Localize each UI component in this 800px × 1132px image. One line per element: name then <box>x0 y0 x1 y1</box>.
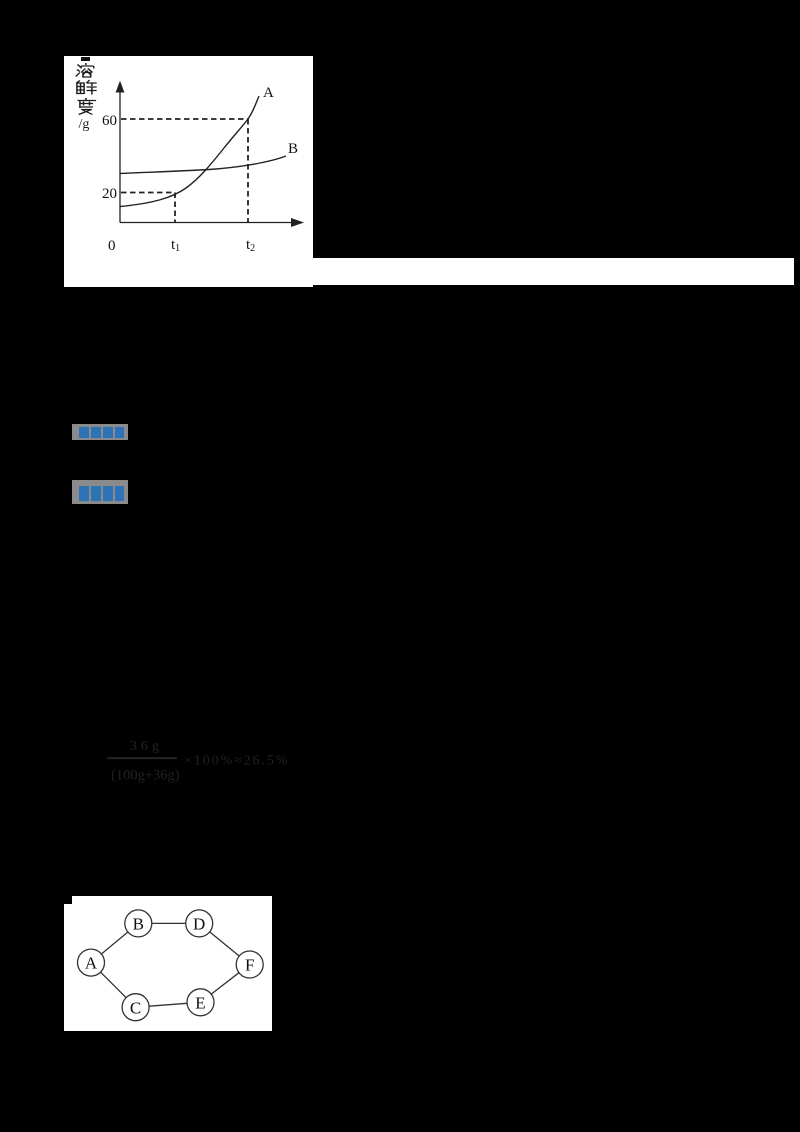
gray tag 2 (analysis tag) <box>72 480 128 504</box>
small black artifact dash on top edge <box>81 57 90 61</box>
svg-text:B: B <box>133 915 144 934</box>
svg-text:D: D <box>193 915 205 934</box>
edge A-B <box>101 932 128 954</box>
edge B-D <box>152 922 186 924</box>
svg-text:C: C <box>130 999 141 1018</box>
graph diagram <box>64 898 272 1029</box>
node D circle <box>186 910 213 937</box>
graph figure white box <box>64 896 272 1031</box>
dashed line x=t1 <box>174 193 176 223</box>
node E circle <box>187 989 214 1016</box>
horizontal scrollbar band right of chart <box>313 258 794 285</box>
edge E-F <box>211 973 239 994</box>
dashed line y=20 <box>121 192 175 194</box>
svg-text:(100g+36g): (100g+36g) <box>111 768 180 784</box>
node A circle <box>78 949 105 976</box>
edge D-F <box>210 932 240 956</box>
svg-text:t2: t2 <box>246 237 255 254</box>
node C circle <box>122 994 149 1021</box>
svg-text:B: B <box>288 141 298 157</box>
curve A <box>120 96 259 207</box>
x-axis <box>120 222 296 224</box>
solubility chart drawing <box>64 56 313 287</box>
svg-text:0: 0 <box>108 238 116 254</box>
y-axis <box>119 89 121 223</box>
svg-text:E: E <box>195 994 205 1013</box>
edge A-C <box>101 972 127 998</box>
blue tag 1 (answer tag) <box>72 424 128 440</box>
node B circle <box>125 910 152 937</box>
dashed line y=60 <box>121 118 248 120</box>
y-axis label 度 glyph <box>78 98 97 115</box>
dark glyph marks inside tag 1 <box>79 427 124 439</box>
svg-text:60: 60 <box>102 113 117 129</box>
node F circle <box>236 951 263 978</box>
svg-text:×100%≈26.5%: ×100%≈26.5% <box>184 754 289 769</box>
svg-text:/g: /g <box>79 117 90 132</box>
y-axis label 解 glyph <box>76 80 96 95</box>
svg-text:A: A <box>263 85 274 101</box>
faint formula (saturated solution mass fraction) <box>100 736 300 790</box>
blue glyph marks inside tag 2 <box>79 486 124 502</box>
y-axis label 溶 glyph <box>76 63 94 77</box>
svg-text:36g: 36g <box>130 739 163 754</box>
svg-text:20: 20 <box>102 186 117 202</box>
curve B <box>120 156 286 174</box>
svg-text:A: A <box>85 954 98 973</box>
fraction bar <box>107 757 177 759</box>
svg-text:F: F <box>245 956 254 975</box>
svg-text:t1: t1 <box>171 237 180 254</box>
dashed line x=t2 <box>247 119 249 222</box>
black notch at graph box top-left corner <box>64 896 72 904</box>
chart figure white box <box>64 56 313 287</box>
edge C-E <box>149 1003 187 1006</box>
